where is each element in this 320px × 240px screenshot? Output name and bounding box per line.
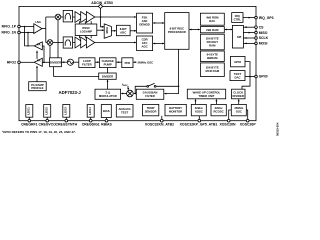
wire pa ramp arrow to pa2: [36, 66, 38, 81]
pin diamond ADCIN_ATB3: [98, 4, 102, 8]
mixer Q: [47, 40, 53, 46]
block 32kHz XOSC: [191, 104, 206, 115]
svg-text:CREGRF1: CREGRF1: [21, 123, 38, 127]
wire mixerQ to filter2: [53, 42, 63, 44]
wire processor to memory: [190, 29, 200, 31]
svg-text:LDO2: LDO2: [44, 107, 48, 115]
block GAUSSIAN FILTER: [136, 89, 164, 99]
wire mux to adc: [111, 30, 115, 32]
wire filter1 to limiter1: [73, 16, 75, 18]
svg-text:RAC: RAC: [209, 19, 215, 23]
block PFD: [122, 58, 133, 68]
svg-text:RBIAS: RBIAS: [101, 123, 112, 127]
pin RBIAS: [105, 119, 108, 122]
svg-text:XOSC26P: XOSC26P: [240, 123, 257, 127]
block SPI: [232, 25, 243, 48]
wire divider to vco: [61, 61, 67, 63]
svg-text:LDO4: LDO4: [88, 107, 92, 115]
svg-text:TEST: TEST: [121, 110, 128, 114]
svg-text:ADF7023-J: ADF7023-J: [59, 90, 82, 95]
block FSK ASK DEMOD: [137, 13, 153, 33]
block BIAS: [101, 105, 111, 118]
wire mixerI to filter1: [61, 16, 63, 18]
wire demod to processor: [153, 22, 164, 24]
wire pa1 feed: [42, 46, 44, 62]
svg-text:CREGVCO: CREGVCO: [39, 123, 57, 127]
svg-text:MCR RAM: MCR RAM: [206, 69, 220, 73]
svg-text:ADCIN_ATB3: ADCIN_ATB3: [91, 1, 113, 5]
block sigma delta modulator: [95, 89, 121, 99]
svg-text:PROFILE: PROFILE: [31, 86, 43, 90]
pin IRQ_GP3: [255, 16, 258, 19]
block 256 BYTE MCR RAM: [200, 63, 224, 77]
block DIVIDER synth: [50, 58, 62, 67]
svg-text:AGC: AGC: [141, 45, 147, 49]
wire LNA out split: [42, 28, 46, 30]
wire bypass with switch: [156, 85, 179, 87]
wire xosc32kn stub: [161, 116, 163, 119]
wire RFIO_1N to LNA: [21, 32, 34, 34]
svg-text:CTRL: CTRL: [234, 17, 242, 21]
wire fdev arrow: [127, 86, 129, 90]
block CHARGE PUMP: [100, 58, 117, 68]
limiter chain 1: [75, 12, 83, 23]
wire xosc32k to wakeup: [195, 100, 197, 105]
pin CREGDIG1: [89, 119, 92, 122]
svg-text:DIVIDER: DIVIDER: [50, 61, 61, 65]
wire cp to loop filter: [95, 61, 100, 63]
svg-text:RFIO_1P: RFIO_1P: [2, 25, 17, 29]
block BATTERY MONITOR: [165, 104, 186, 115]
node pa feed junction: [43, 62, 45, 64]
svg-text:09319-004: 09319-004: [276, 122, 280, 136]
svg-text:DEMOD: DEMOD: [139, 23, 149, 27]
svg-text:XOSC: XOSC: [195, 110, 203, 114]
block TEMP SENSOR: [143, 104, 159, 115]
block 8-BIT RISC PROCESSOR: [165, 13, 189, 50]
svg-text:ADC: ADC: [120, 30, 126, 34]
summing node: [127, 90, 134, 97]
node PA1 tap N: [27, 32, 29, 34]
svg-text:LNA: LNA: [35, 20, 41, 24]
wire divider to pa2: [42, 61, 49, 63]
block 2kB RAM: [200, 27, 224, 33]
wire bus to clock divider: [242, 77, 250, 90]
wire spi MOSI: [243, 42, 254, 44]
wire limiter1 to demod: [95, 16, 136, 18]
pin CS: [255, 26, 258, 29]
wire synth divider feedback: [54, 67, 99, 77]
wire rfo2 to pa2: [21, 61, 35, 63]
wire LO to mixerQ: [49, 45, 51, 58]
wire sd mod to ndivider: [107, 80, 109, 89]
wire irq to pin: [243, 17, 255, 19]
svg-text:OSC: OSC: [236, 110, 242, 114]
node gpio junction: [249, 76, 251, 78]
svg-text:PROCESSOR: PROCESSOR: [168, 30, 186, 34]
block TEST DAC: [230, 71, 245, 81]
block ANALOG TEST: [116, 105, 133, 118]
svg-text:DAC: DAC: [234, 75, 240, 79]
node junction ADCIN x limiter: [100, 16, 102, 18]
switch: [147, 85, 149, 87]
svg-text:PA: PA: [37, 59, 41, 63]
block LDO4: [87, 105, 94, 118]
block GPIO: [231, 56, 246, 66]
block LOOP FILTER: [79, 58, 95, 68]
wire cdr to processor: [153, 43, 164, 45]
svg-text:CS: CS: [259, 25, 264, 29]
block LDO1: [26, 105, 33, 118]
block 8-BIT ADC: [116, 25, 130, 35]
svg-text:MUX: MUX: [105, 27, 109, 33]
block WAKE-UP CONTROL TIMER UNIT: [187, 89, 225, 99]
wire 26mhz to pfd: [134, 61, 137, 63]
wire cregrf1 stub: [28, 117, 30, 119]
wire rbias stub: [106, 118, 108, 120]
svg-text:FILTER: FILTER: [145, 94, 155, 98]
svg-text:XOSC26N: XOSC26N: [219, 123, 236, 127]
wire spi CS: [243, 26, 254, 28]
wire 26mhz to clock divider: [238, 100, 240, 105]
wire processor to gaussian: [165, 49, 179, 93]
wire gpio to bus: [245, 62, 250, 77]
pin XOSC32KN_ATB2: [161, 119, 164, 122]
svg-text:LDO3: LDO3: [63, 107, 67, 115]
wire vco to loop filter: [74, 61, 79, 63]
svg-text:BBRAM: BBRAM: [207, 56, 218, 60]
wire pfd to cp: [116, 61, 122, 63]
pin XOSC32KP_GP5_ATB1: [198, 119, 201, 122]
svg-text:BIAS: BIAS: [103, 109, 110, 113]
wire rssi to mux: [97, 29, 104, 31]
block PA RAMP PROFILE: [29, 82, 47, 91]
svg-text:CREGDIG1: CREGDIG1: [82, 123, 100, 127]
wire xosc26n stub: [229, 110, 232, 119]
wire testdac to pin: [245, 76, 255, 78]
svg-text:GPIO: GPIO: [234, 60, 242, 64]
svg-text:XOSC32KN_ATB2: XOSC32KN_ATB2: [145, 123, 174, 127]
mixer I: [55, 14, 61, 20]
pin MOSI: [255, 42, 258, 45]
svg-text:PA: PA: [37, 42, 41, 46]
block 32kHz RCOSC: [211, 104, 226, 115]
block 64 BYTE BBRAM: [200, 51, 224, 62]
svg-text:MOSI: MOSI: [259, 42, 268, 46]
wire cregdig1 stub: [90, 117, 92, 119]
block LDO2: [44, 105, 51, 118]
wire pa ramp arrow to pa1: [36, 51, 38, 59]
filter IF2: [63, 37, 72, 48]
svg-text:GPIO¹: GPIO¹: [259, 75, 270, 79]
wire memory to spi: [225, 29, 232, 31]
oscillator VCO: [67, 59, 73, 65]
pin SCLK: [255, 37, 258, 40]
svg-text:CREGSYNTH: CREGSYNTH: [56, 123, 78, 127]
wire cregsynth stub: [65, 117, 67, 119]
pin XOSC26P: [246, 119, 249, 122]
svg-text:MISO: MISO: [259, 31, 268, 35]
svg-text:IRQ_GP3: IRQ_GP3: [259, 16, 274, 20]
svg-text:MONITOR: MONITOR: [169, 110, 182, 114]
amplifier LNA: [34, 24, 42, 34]
filter IF1: [63, 10, 72, 22]
wire sum to sd mod: [122, 93, 127, 95]
wire filter2 to limiter2: [73, 42, 75, 44]
svg-text:RFO2: RFO2: [7, 61, 16, 65]
wire cregvco stub: [46, 117, 48, 119]
wire rcosc to wakeup: [215, 100, 217, 105]
svg-text:LDO1: LDO1: [26, 107, 30, 115]
wire PA1 output to pins: [25, 27, 35, 46]
pin GPIO1: [255, 75, 258, 78]
block 4kB ROM RAC: [200, 13, 224, 25]
wire xosc32kp stub: [198, 116, 200, 119]
block IRQ CTRL: [232, 13, 243, 23]
wire xosc26p stub: [246, 110, 247, 119]
svg-text:RFIO_1N: RFIO_1N: [1, 31, 16, 35]
svg-text:PFD: PFD: [125, 61, 131, 65]
mux: [104, 24, 111, 38]
wire cp to ndivider: [107, 68, 109, 73]
amplifier PA2: [34, 58, 42, 66]
svg-text:RAM: RAM: [209, 44, 216, 48]
rssi taps top: [79, 21, 81, 24]
svg-text:TIMER UNIT: TIMER UNIT: [198, 94, 214, 98]
svg-text:SENSOR: SENSOR: [145, 110, 157, 114]
block DIVIDER n: [99, 73, 117, 79]
svg-text:2kB RAM: 2kB RAM: [206, 28, 219, 32]
wire ADCIN vertical: [101, 9, 104, 27]
svg-text:SCLK: SCLK: [259, 36, 269, 40]
wire LO to mixerI: [57, 20, 59, 58]
svg-text:26MHz OSC: 26MHz OSC: [138, 60, 154, 64]
block RSSI/LOGAMP: [75, 24, 97, 36]
svg-text:RCOSC: RCOSC: [214, 110, 224, 114]
svg-text:PUMP: PUMP: [104, 63, 112, 67]
block CDR AFC AGC: [137, 36, 153, 51]
svg-text:¹GPIO REFERS TO PINS 17, 18, 1: ¹GPIO REFERS TO PINS 17, 18, 19, 20, 26,…: [2, 130, 76, 134]
pin CREGVCO: [46, 119, 49, 122]
wire gaussian to sum: [134, 93, 136, 95]
wire limiter2 to cdr: [95, 42, 136, 44]
node PA1 tap P: [24, 26, 26, 28]
chip border: [19, 6, 256, 120]
wire RFIO_1P to LNA: [21, 26, 34, 28]
wire adc to demod: [130, 30, 136, 32]
limiter chain 2: [75, 37, 83, 48]
wire spi SCLK: [243, 37, 254, 39]
node bypass junction: [178, 86, 180, 88]
wire spi MISO: [243, 32, 254, 34]
block LDO3: [63, 105, 70, 118]
block 26MHz OSC: [231, 104, 246, 115]
svg-text:MODULATOR: MODULATOR: [99, 94, 117, 98]
svg-text:SPI: SPI: [237, 35, 242, 39]
svg-text:FILTER: FILTER: [82, 63, 92, 67]
svg-text:LOGAMP: LOGAMP: [80, 29, 92, 33]
pin MISO: [255, 31, 258, 34]
amplifier PA1: [34, 42, 42, 50]
pin CREGRF1: [28, 119, 31, 122]
pin CREGSYNTH: [65, 119, 68, 122]
block CLOCK DIVIDER: [232, 89, 246, 99]
svg-text:DIVIDER: DIVIDER: [233, 94, 244, 98]
svg-text:DIVIDER: DIVIDER: [102, 74, 113, 78]
svg-text:XOSC32KP_GP5_ATB1: XOSC32KP_GP5_ATB1: [180, 123, 218, 127]
rssi taps bottom: [79, 36, 81, 39]
pin XOSC26N: [227, 119, 230, 122]
block 256 BYTE PACKET RAM: [200, 34, 224, 50]
